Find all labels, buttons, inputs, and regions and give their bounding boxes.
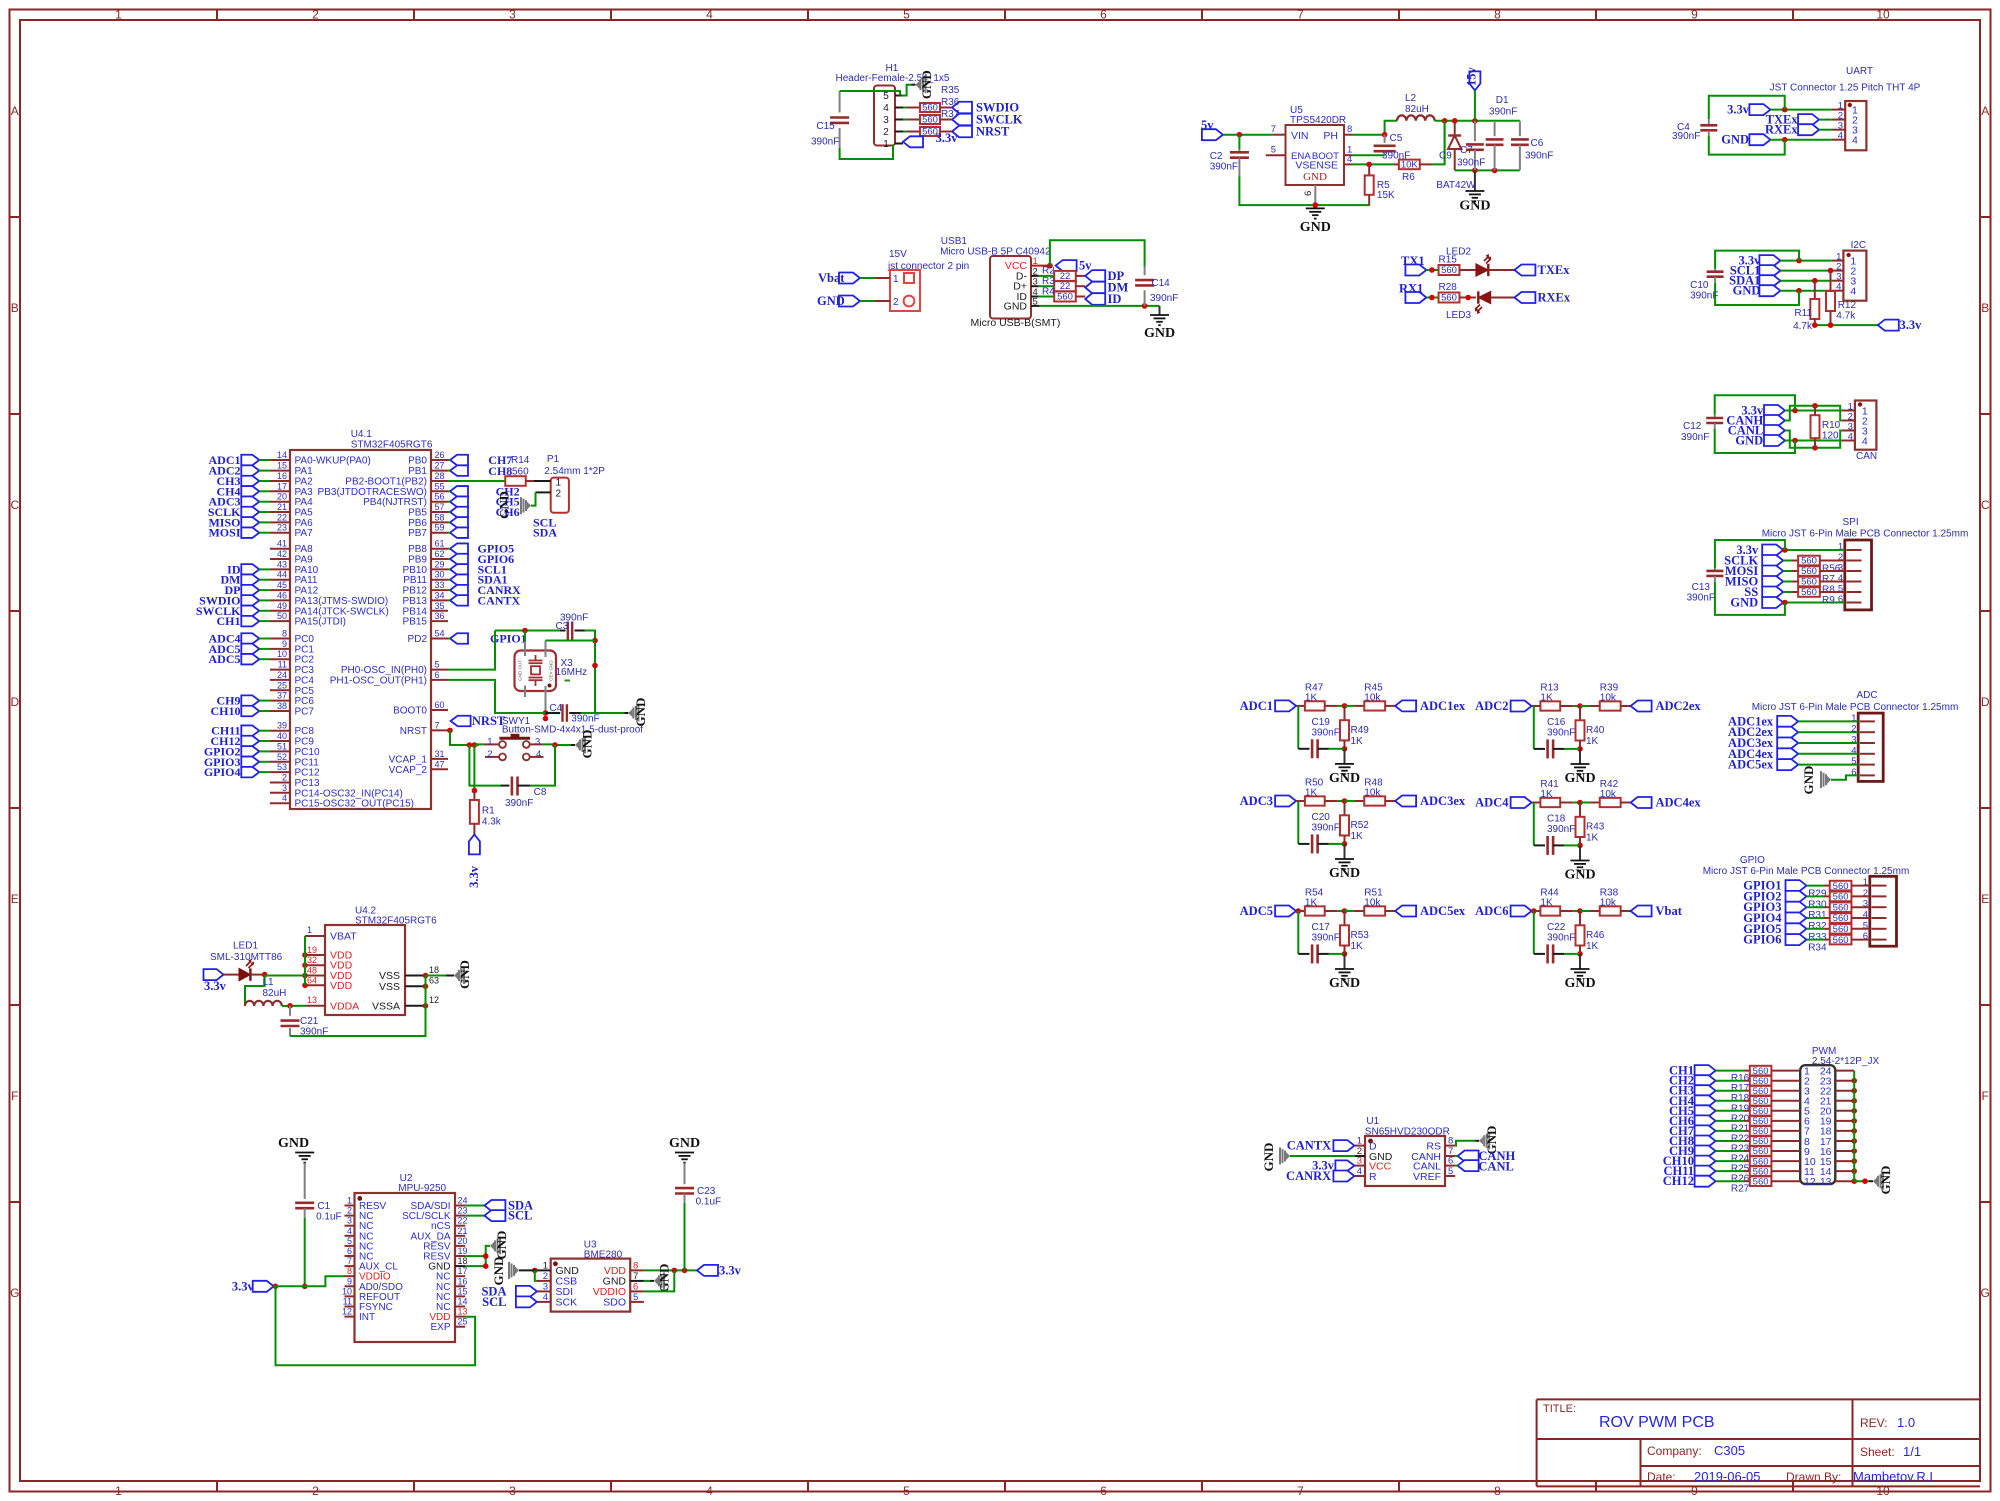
svg-text:560: 560 [512,467,529,478]
svg-text:6: 6 [633,1281,638,1292]
svg-text:41: 41 [277,539,287,549]
resistor R10 120 [1811,406,1841,448]
svg-text:GND: GND [633,698,648,727]
net flag 3.3v U2 [232,1279,274,1293]
svg-text:CANTX: CANTX [1287,1139,1331,1153]
svg-text:LED2: LED2 [1446,247,1471,258]
net flag 3.3v UART [1727,103,1770,117]
wire [1329,953,1345,955]
junction [1782,107,1788,113]
svg-text:E: E [1981,892,1989,906]
svg-text:C12: C12 [1683,421,1702,432]
pin 25 U2 EXP [430,1317,467,1334]
svg-text:P1: P1 [547,454,560,465]
svg-text:USB1: USB1 [941,236,968,247]
svg-text:PC12: PC12 [295,768,320,779]
svg-text:4: 4 [883,103,889,114]
svg-text:R6: R6 [1402,172,1415,183]
ground GND arrow PWM [1869,1166,1893,1195]
junction [467,742,473,748]
net flag CH1 [217,614,260,628]
wire bottom rail U5 output [1455,169,1520,171]
ground GND earth U5 [1300,208,1331,235]
net flag CANH CAN [1726,414,1785,428]
net flag ADC2ex [1631,699,1702,713]
svg-text:7: 7 [435,720,440,730]
pin 1 P1 [534,480,551,482]
wire [1716,1160,1744,1162]
svg-text:Vbat: Vbat [1656,904,1683,918]
wire [1716,1130,1744,1132]
junction [1851,1098,1857,1104]
svg-text:55: 55 [435,481,445,491]
svg-text:GND: GND [1329,866,1360,881]
svg-text:GND: GND [1564,771,1595,786]
wire VDD8 to 3.3v [644,1269,697,1271]
pin 5 U5 ENA [1266,154,1286,156]
svg-text:R: R [1369,1171,1377,1183]
junction [1342,908,1348,914]
svg-text:C21: C21 [300,1016,319,1027]
wire [1783,549,1845,551]
junction [1796,288,1802,294]
pin right PWM [1835,1150,1854,1152]
junction [1429,267,1435,273]
junction [302,983,308,989]
svg-text:GND OUT: GND OUT [518,660,523,681]
junction [1465,295,1471,301]
svg-text:4.7k: 4.7k [1793,321,1813,332]
net flag 3.3v H1 pin1 [903,131,958,147]
wire [259,610,270,612]
svg-text:1K: 1K [1540,898,1553,909]
wire [1770,109,1832,111]
wire [448,532,450,534]
capacitor C19 390nF [1298,717,1340,758]
pin 18 U4.2 VSS [379,965,439,982]
pin 41 U4.1 PA8 [270,539,313,556]
svg-text:46: 46 [277,590,287,600]
junction [1828,268,1834,274]
pin 25 U4.1 PC5 [270,680,314,697]
junction [1812,403,1818,409]
pin 50 U4.1 PA15(JTDI) [270,611,346,628]
wire [1716,1180,1744,1182]
junction [1792,438,1798,444]
pin 6 U4.1 PH1-OSC_OUT(PH1) [330,670,448,687]
junction [1851,1138,1857,1144]
svg-text:PB1: PB1 [408,466,427,477]
pin 17 U2 NC [436,1266,467,1283]
wire [860,277,875,279]
resistor R49 1K [1340,706,1369,749]
pin 34 U4.1 PB13 [403,590,448,607]
net flag SCL1 I2C [1730,264,1781,278]
svg-text:3: 3 [535,736,540,747]
junction [1851,1148,1857,1154]
resistor R9 560 [1792,587,1845,606]
pin 2 15V [875,300,890,302]
svg-text:PB11: PB11 [403,575,427,586]
junction [1342,703,1348,709]
wire [259,648,270,650]
wire [1338,705,1345,707]
svg-text:1K: 1K [1586,833,1599,844]
pin CAN [1842,410,1855,412]
wire R6 to output node [1432,121,1445,165]
pin 16 U2 NC [436,1276,467,1293]
net flag DM [221,573,260,587]
net flag CH7 [1669,1124,1716,1138]
net flag ADC1ex [1395,699,1466,713]
inductor L2 82uH [1397,93,1435,121]
svg-text:1: 1 [893,274,899,285]
connector I2C [1836,240,1866,301]
led LED2 [1446,247,1514,277]
wire [1716,1070,1744,1072]
pin 64 U4.2 VDD [305,975,353,992]
wire GND stub [1344,844,1346,859]
svg-text:PB3(JTDOTRACESWO): PB3(JTDOTRACESWO) [318,487,427,498]
mcu U4.1 STM32F405RGT6 [290,429,433,809]
wire [1716,1100,1744,1102]
pin 6 U5 GND [1314,185,1316,205]
svg-text:390nF: 390nF [1681,432,1709,443]
wire [1783,591,1792,593]
pin 12 U2 INT [342,1307,375,1324]
svg-text:VDD: VDD [330,980,353,992]
svg-text:11: 11 [343,1297,352,1307]
svg-text:32: 32 [307,955,317,965]
pin 8 U4.1 PC0 [270,629,314,646]
svg-text:16: 16 [458,1276,468,1286]
svg-text:57: 57 [435,502,445,512]
wire [1716,1090,1744,1092]
junction [522,628,528,634]
capacitor C13 390nF SPI [1687,540,1785,615]
wire U1 GND pin2 [1290,1155,1355,1157]
net flag RXEx [1514,291,1570,305]
svg-text:PA13(JTMS-SWDIO): PA13(JTMS-SWDIO) [295,596,389,607]
resistor R51 10k [1354,888,1395,916]
junction [1577,908,1583,914]
net flag GPIO3 [204,755,259,769]
resistor R3 22 [1039,276,1086,292]
wire [1780,270,1832,272]
svg-text:22: 22 [458,1216,468,1226]
svg-text:1K: 1K [1305,788,1318,799]
wire GND stub [1579,749,1581,764]
svg-text:PA11: PA11 [295,575,318,586]
svg-text:CAN: CAN [1856,451,1877,462]
svg-text:24: 24 [458,1196,468,1206]
pin 3 H1 [895,119,903,121]
net flag ADC5 [1240,904,1296,918]
net flag GND SPI [1730,596,1783,610]
wire [259,750,270,752]
pin 9 U4.1 PC1 [270,639,314,656]
svg-text:560: 560 [1833,892,1849,903]
svg-text:GND: GND [1329,771,1360,786]
svg-text:C22: C22 [1547,922,1566,933]
svg-text:29: 29 [435,559,445,569]
wire crystal rail right [585,631,596,714]
pin CAN [1842,430,1855,432]
wire R5 bottom rail [1315,204,1370,206]
net flag MOSI [208,526,259,540]
svg-text:6: 6 [1100,1484,1107,1498]
svg-text:15: 15 [458,1286,468,1296]
svg-text:3.3v: 3.3v [467,865,481,888]
svg-text:10k: 10k [1364,898,1381,909]
net flag 3.3v LED1 [204,969,227,993]
svg-text:MOSI: MOSI [208,526,240,540]
svg-text:7: 7 [633,1271,638,1282]
net flag RXEx UART [1765,123,1819,137]
svg-text:C10: C10 [1690,280,1709,291]
net flag TX1 [1401,254,1426,276]
pin 57 U4.1 PB5 [408,502,448,519]
wire C15 bottom to pin1 net [840,145,893,160]
svg-text:390nF: 390nF [811,137,839,148]
svg-text:Micro JST 6-Pin Male PCB Conne: Micro JST 6-Pin Male PCB Connector 1.25m… [1762,529,1969,540]
svg-text:61: 61 [435,539,445,549]
resistor R31 560 [1808,902,1870,921]
svg-text:18: 18 [429,965,439,975]
svg-text:8: 8 [1494,1484,1501,1498]
wire VSS to GND [426,975,447,977]
sensor U3 BME280 [551,1240,631,1312]
svg-text:24: 24 [277,670,287,680]
pin 5 U3 SDO [603,1292,644,1309]
svg-text:8: 8 [347,1266,352,1276]
wire [903,131,907,133]
pin 1 U4.2 VBAT [305,925,357,943]
svg-text:1: 1 [883,139,889,150]
wire 3.3v to VDDIO [274,1276,345,1286]
net flag CH4 [1669,1094,1716,1108]
net flag ADC1 [209,453,260,467]
pin 4 U3 SCK [536,1292,577,1309]
wire [259,459,270,461]
pin 19 U4.2 VDD [305,945,353,962]
junction [1577,951,1583,957]
svg-text:GND: GND [1878,1166,1893,1195]
net flag CANRX U4.1 [450,583,521,597]
svg-text:C3: C3 [556,621,569,632]
pin 20 U4.1 PA4 [270,492,313,509]
svg-text:C1: C1 [317,1201,330,1212]
net flag ADC6 [1475,904,1531,918]
pin UART [1832,139,1845,141]
svg-text:ADC3ex: ADC3ex [1420,794,1466,808]
svg-text:GND: GND [1261,1143,1276,1172]
junction [1851,1158,1857,1164]
svg-text:20: 20 [458,1236,468,1246]
wire [1345,800,1355,802]
pin 5 U1 VREF [1413,1166,1455,1183]
svg-text:30: 30 [435,570,445,580]
svg-text:22: 22 [277,512,287,522]
svg-text:Button-SMD-4x4x1.5-dust-proof: Button-SMD-4x4x1.5-dust-proof [502,725,643,736]
pin right PWM [1835,1080,1854,1082]
connector GPIO Micro JST 6-Pin [1703,855,1910,946]
pin right PWM [1835,1170,1854,1172]
svg-text:2: 2 [347,1206,352,1216]
net flag SDA U3 [481,1284,536,1298]
svg-text:R35: R35 [941,85,960,96]
svg-text:VSSA: VSSA [372,1000,400,1012]
svg-text:NRST: NRST [472,714,506,728]
junction [1429,295,1435,301]
svg-text:F: F [11,1089,18,1103]
svg-text:I2C: I2C [1851,240,1867,251]
capacitor C5 390nF [1374,133,1411,162]
pin 49 U4.1 PA14(JTCK-SWCLK) [270,601,389,618]
pin 47 U4.1 VCAP_2 [389,759,448,776]
junction [1851,1108,1857,1114]
wire crystal rail to GND [581,712,625,714]
svg-text:35: 35 [435,601,445,611]
wire RS to GND [1455,1141,1475,1146]
pin right PWM [1835,1100,1854,1102]
resistor R27 560 [1731,1176,1800,1194]
net flag 3.3v SPI [1736,543,1783,557]
svg-text:58: 58 [435,512,445,522]
pin right PWM [1835,1140,1854,1142]
svg-text:12: 12 [1804,1176,1816,1188]
resistor R4 560 [1039,286,1086,302]
wire [1716,1120,1744,1122]
resistor R53 1K [1340,911,1369,954]
svg-text:LED3: LED3 [1446,310,1471,321]
svg-text:10k: 10k [1364,692,1381,703]
svg-text:R43: R43 [1586,822,1605,833]
pin 2 U1 GND [1355,1146,1393,1163]
svg-text:390nF: 390nF [1312,823,1340,834]
svg-text:10k: 10k [1600,693,1617,704]
wire [259,480,270,482]
svg-text:13: 13 [458,1307,468,1317]
resistor R37 560 [907,109,960,138]
svg-text:60: 60 [435,700,445,710]
net flag CH10 [1663,1154,1716,1168]
wire [448,568,450,570]
pin 4 H1 [895,107,903,109]
svg-text:VBAT: VBAT [330,931,357,943]
svg-text:18: 18 [458,1256,468,1266]
svg-text:R10: R10 [1822,420,1841,431]
net flag SWDIO [199,593,259,607]
wire [259,532,270,534]
svg-text:2: 2 [282,773,287,783]
svg-text:PC6: PC6 [295,696,315,707]
net flag SCLK [208,505,259,519]
svg-text:4: 4 [536,749,541,760]
svg-text:TITLE:: TITLE: [1543,1403,1576,1415]
resistor R23 560 [1731,1136,1800,1154]
svg-text:C20: C20 [1312,812,1331,823]
pin 4 U1 R [1355,1166,1377,1183]
svg-text:GND: GND [1459,199,1490,214]
pin 53 U4.1 PC12 [270,762,320,779]
pin UART [1832,109,1845,111]
svg-text:390nF: 390nF [1150,293,1178,304]
junction [472,742,478,748]
wire [259,470,270,472]
wire [259,511,270,513]
resistor R15 560 [1439,255,1476,277]
pin I2C [1832,260,1844,262]
net flag Vbat [818,271,860,285]
wire [448,521,450,523]
net flag SCL U4.1 [450,515,556,529]
ground GND arrow P1 [498,491,532,519]
net flag SCL1 U4.1 [450,562,507,576]
led LED1 SML-310MTT86 [210,941,283,981]
svg-text:23: 23 [458,1206,468,1216]
wire [1564,953,1580,955]
wire [860,300,875,302]
pin right PWM [1835,1180,1854,1182]
svg-text:GND: GND [1564,976,1595,991]
svg-text:PC10: PC10 [295,747,320,758]
wire PWM ground bus [1854,1071,1869,1182]
svg-text:390nF: 390nF [1547,728,1575,739]
svg-text:1: 1 [115,8,122,22]
pin 13 U2 VDD [429,1307,467,1324]
svg-text:R33: R33 [1808,932,1827,943]
svg-text:3: 3 [282,783,287,793]
pin NRST junction [447,728,453,734]
svg-text:390nF: 390nF [1690,291,1718,302]
net flag GND I2C [1733,284,1781,298]
pin 4 U5 VSENSE [1344,163,1352,165]
svg-text:10K: 10K [1401,160,1419,171]
wire [448,501,450,503]
pin 2 P1 [536,491,551,493]
svg-text:C305: C305 [1714,1443,1745,1458]
ground GND earth divider [1564,969,1595,991]
pin 8 U5 PH [1344,134,1352,136]
pin 51 U4.1 PC10 [270,741,320,758]
svg-text:INT: INT [359,1312,375,1323]
resistor R50 1K [1296,778,1338,806]
svg-text:GPIO4: GPIO4 [204,765,241,779]
transceiver U1 SN65HVD230QDR [1365,1116,1450,1186]
net flag ADC1ex [1728,714,1798,728]
pin 63 U4.2 VSS [379,976,439,993]
wire [448,579,450,581]
svg-text:1K: 1K [1305,898,1318,909]
junction [1472,168,1478,174]
svg-text:1: 1 [347,1196,352,1206]
svg-text:4.7k: 4.7k [1836,311,1856,322]
svg-text:10k: 10k [1600,789,1617,800]
svg-text:2019-06-05: 2019-06-05 [1694,1469,1761,1484]
wire [448,638,450,640]
svg-text:GND: GND [1801,766,1816,795]
wire GND stub [1344,954,1346,969]
pin 2 USB1 D- [1031,275,1039,277]
svg-text:R34: R34 [1808,943,1827,954]
pin 27 U4.1 PB1 [408,461,448,478]
net flag CH11 [211,724,259,738]
junction [1796,258,1802,264]
resistor R30 560 [1808,892,1870,911]
wire [1716,1150,1744,1152]
pin 4 USB1 ID [1031,296,1039,298]
